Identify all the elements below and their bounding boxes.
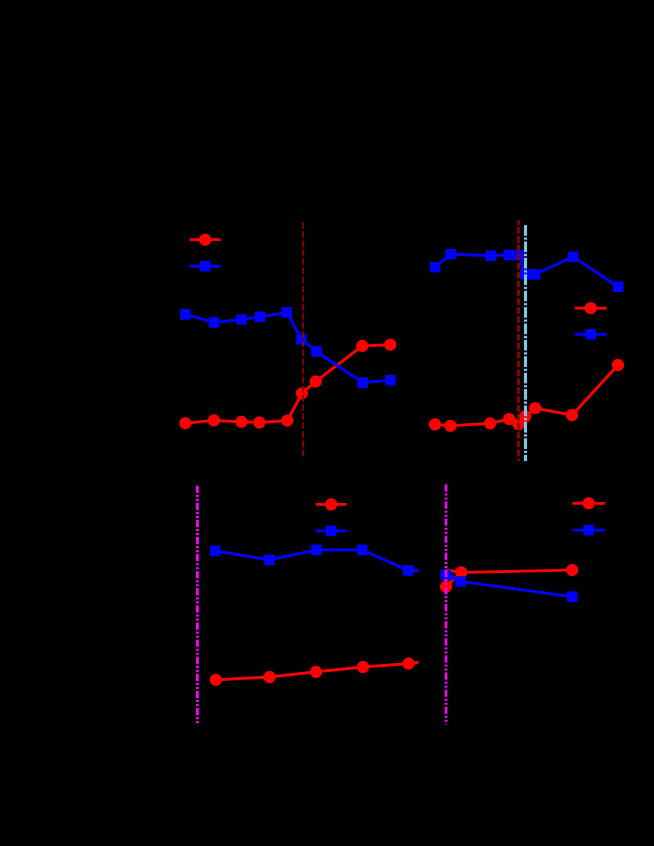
bottom-right blue series markers [440, 570, 577, 602]
bottom-right red clipped entry segment [446, 570, 461, 572]
bottom-left legend red entry [316, 498, 347, 510]
top-left red series markers [179, 339, 396, 430]
bottom-left red series line [216, 662, 419, 680]
top-left darkred dashed vline [302, 222, 304, 459]
bottom-left legend blue entry [316, 526, 347, 537]
top-right red series markers [429, 359, 624, 432]
bottom-right blue clipped entry segment [446, 572, 460, 582]
bottom-right blue series line [446, 575, 573, 597]
top-right red series line [435, 365, 618, 426]
bottom-left blue series markers [210, 545, 414, 576]
bottom-right legend blue entry [573, 525, 605, 536]
top-left red series line [185, 345, 390, 424]
bottom-right red series markers [440, 564, 578, 593]
bottom-right magenta dash-dot-dot vline [445, 484, 448, 724]
bottom-left magenta dash-dot-dot vline [196, 486, 199, 724]
top-left blue series line [185, 312, 390, 382]
top-right legend blue entry [575, 329, 607, 340]
bottom-right legend red entry [573, 497, 605, 509]
top-right blue series line [435, 254, 618, 287]
top-right skyblue dash-dot vline [524, 225, 527, 461]
top-left blue series markers [180, 307, 396, 388]
top-left legend blue entry [190, 261, 221, 272]
bottom-left red series markers [210, 658, 415, 686]
top-left legend red entry [190, 234, 221, 246]
top-right legend red entry [575, 302, 607, 314]
bottom-left blue series line [215, 550, 418, 571]
top-right darkred dashed vline [517, 220, 520, 461]
top-right blue series markers [430, 249, 624, 292]
bottom-right red series line [446, 570, 572, 587]
